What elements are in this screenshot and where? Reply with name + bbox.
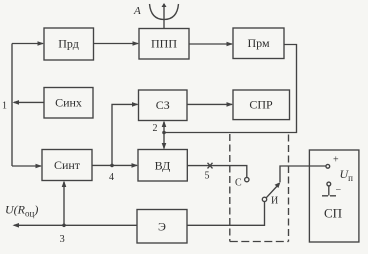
block Синх xyxy=(44,88,93,119)
svg-text:Э: Э xyxy=(158,220,166,234)
block СЗ xyxy=(139,90,188,121)
node 4 junction dot xyxy=(110,164,114,168)
svg-text:A: A xyxy=(133,5,141,17)
svg-text:Синт: Синт xyxy=(54,158,81,172)
svg-text:ППП: ППП xyxy=(151,37,177,51)
svg-text:1: 1 xyxy=(2,101,7,112)
svg-text:СП: СП xyxy=(324,206,342,221)
СП plus terminal circle xyxy=(326,164,330,168)
break mark X on node 5 xyxy=(208,163,213,169)
contact И circle xyxy=(262,197,266,201)
svg-text:Прд: Прд xyxy=(58,37,79,51)
node 3 junction dot xyxy=(62,224,66,228)
dashed boundary right side xyxy=(288,135,290,242)
svg-text:−: − xyxy=(336,185,342,196)
contact C circle xyxy=(245,177,249,181)
wire ВД to contact C (node 5) xyxy=(187,166,247,178)
block ВД xyxy=(138,150,187,182)
block Прм xyxy=(233,28,284,59)
svg-text:СЗ: СЗ xyxy=(156,98,170,112)
svg-text:Синх: Синх xyxy=(55,96,82,110)
wire bus to Прд with arrow xyxy=(12,43,43,45)
svg-text:Прм: Прм xyxy=(247,36,269,50)
svg-text:Uп: Uп xyxy=(340,167,354,183)
СП ground stem xyxy=(328,186,330,196)
wire node 4 up to СЗ with arrow xyxy=(112,104,138,165)
СП minus terminal circle xyxy=(327,182,331,186)
wire Э output left to U(Roc) arrow xyxy=(14,224,137,226)
dashed boundary bottom side xyxy=(230,241,289,243)
block ППП xyxy=(139,29,189,60)
wire bus vertical left (node 1) xyxy=(11,44,13,167)
node 2 junction dot xyxy=(162,131,166,135)
antenna A feed line xyxy=(163,4,165,29)
block Прд xyxy=(44,28,94,60)
wire Синт to ВД with arrow (node 4) xyxy=(92,164,137,166)
wire node 2 up to СЗ with arrow xyxy=(163,122,165,133)
svg-text:ВД: ВД xyxy=(155,159,171,173)
wire Прм feedback down to node 2 xyxy=(164,45,297,133)
svg-text:2: 2 xyxy=(153,123,158,134)
wire Э to switch И xyxy=(187,202,265,226)
svg-text:U(Rоц): U(Rоц) xyxy=(5,203,38,219)
block СП xyxy=(309,150,359,242)
wire Синх to bus with left arrow xyxy=(14,101,44,103)
block СПР xyxy=(233,90,290,120)
svg-text:+: + xyxy=(333,155,339,166)
svg-text:3: 3 xyxy=(60,234,65,245)
wire switch to СП plus terminal xyxy=(280,166,326,182)
СП ground bar xyxy=(322,195,336,197)
svg-text:C: C xyxy=(235,178,242,189)
block Э xyxy=(137,210,187,244)
svg-text:5: 5 xyxy=(205,171,210,182)
svg-text:СПР: СПР xyxy=(249,98,273,112)
block Синт xyxy=(42,150,92,181)
switch lever xyxy=(266,184,279,198)
antenna feed arrow xyxy=(162,3,167,7)
switch lever arrowhead xyxy=(275,182,281,188)
wire bus to Синт with arrow xyxy=(12,165,41,167)
wire node 3 up to Синт with arrow xyxy=(63,182,65,225)
wire Прд to ППП with arrow xyxy=(94,43,139,45)
wire ППП to Прм with arrow xyxy=(189,43,232,45)
svg-text:4: 4 xyxy=(109,172,114,183)
dashed boundary left side xyxy=(229,134,231,242)
antenna dish arc xyxy=(150,4,179,20)
svg-text:И: И xyxy=(271,196,278,207)
wire node 2 down to ВД with arrow xyxy=(163,133,165,149)
wire СЗ to СПР with arrow xyxy=(187,103,232,105)
